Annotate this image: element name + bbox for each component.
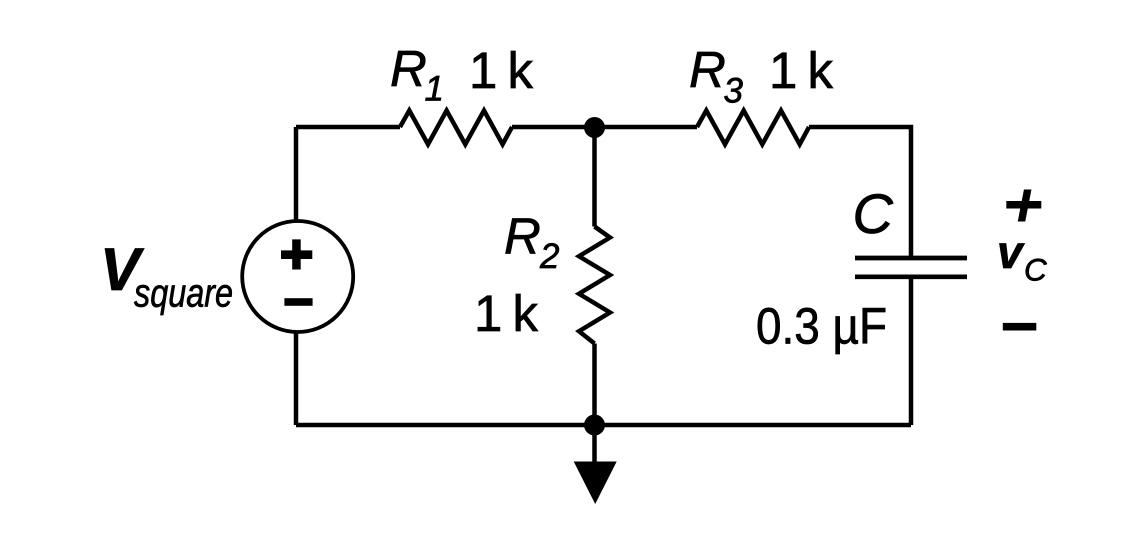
voltage source V_square circle (242, 221, 353, 332)
svg-text:1 k: 1 k (474, 285, 539, 342)
svg-text:square: square (134, 272, 233, 316)
wire left above source (294, 127, 299, 221)
svg-text:3: 3 (724, 72, 744, 111)
svg-text:0.3 µF: 0.3 µF (756, 298, 887, 355)
wire top-right segment with corner (809, 127, 911, 258)
wire ground stub (592, 425, 597, 462)
ground (574, 462, 617, 505)
wire left below source (294, 332, 299, 425)
label vC minus (1003, 323, 1037, 331)
svg-text:1: 1 (425, 70, 444, 109)
svg-text:2: 2 (539, 237, 559, 276)
svg-text:1 k: 1 k (769, 42, 834, 99)
minus sign inside source (284, 298, 312, 306)
wire bottom segment (296, 423, 911, 428)
svg-text:C: C (853, 182, 894, 245)
node junction dot bottom (584, 415, 605, 436)
svg-text:C: C (1024, 251, 1047, 287)
label vC plus (1006, 190, 1041, 222)
wire top-middle segment (512, 125, 697, 130)
svg-text:R: R (504, 208, 541, 265)
wire top-left segment (296, 125, 400, 130)
capacitor C plates (855, 258, 967, 277)
svg-text:R: R (689, 41, 726, 98)
node junction dot top (584, 117, 605, 138)
wire R2 branch bottom (592, 344, 597, 426)
resistor R1 (400, 111, 512, 145)
wire right below capacitor (909, 277, 914, 425)
plus sign inside source (281, 239, 312, 269)
resistor R2 (579, 227, 610, 344)
wire R2 branch top (592, 127, 597, 227)
svg-text:1 k: 1 k (469, 42, 534, 99)
svg-text:v: v (997, 226, 1025, 278)
svg-text:R: R (390, 40, 427, 97)
resistor R3 (697, 111, 809, 145)
